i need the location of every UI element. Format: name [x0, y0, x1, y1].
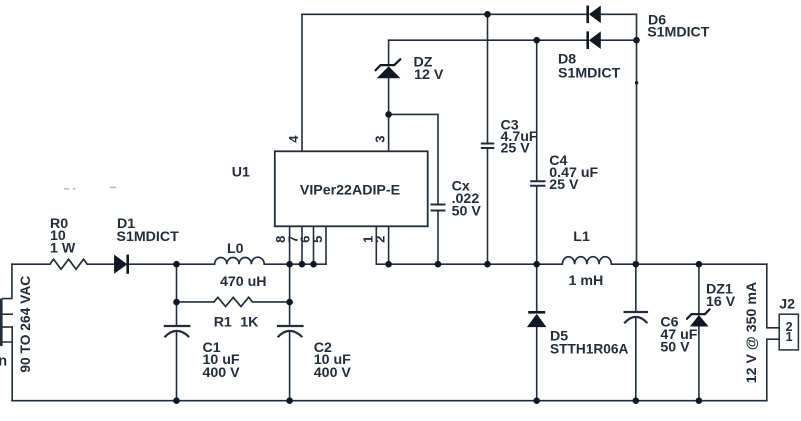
svg-text:90 TO 264 VAC: 90 TO 264 VAC [18, 276, 33, 373]
node rail/C6 [633, 261, 640, 268]
wire DZ1 column [698, 264, 700, 401]
svg-text:VIPer22ADIP-E: VIPer22ADIP-E [300, 183, 400, 199]
svg-text:1K: 1K [240, 314, 259, 330]
svg-text:50 V: 50 V [452, 203, 482, 219]
node rail2/C4 [533, 37, 540, 44]
node rail/C3 [484, 261, 491, 268]
svg-text:R1: R1 [214, 314, 232, 330]
svg-text:400 V: 400 V [203, 365, 241, 381]
node rail/C1 [173, 261, 180, 268]
svg-text:L0: L0 [227, 241, 244, 257]
diode D8 [586, 31, 600, 49]
svg-text:n: n [0, 354, 7, 370]
wire top rail 1 left segment [302, 13, 587, 15]
wire output top corner to J2 pin 2 [767, 264, 779, 328]
svg-text:J2: J2 [779, 297, 795, 313]
svg-text:1 mH: 1 mH [569, 273, 604, 289]
wire right drop from D6/D8 [636, 14, 638, 264]
capacitor C4 [530, 181, 545, 186]
svg-text:S1MDICT: S1MDICT [558, 65, 621, 81]
wire DZ zener bottom lead to node [388, 78, 390, 151]
svg-text:470 uH: 470 uH [220, 274, 267, 290]
node R1/C2 [286, 299, 293, 306]
wire D5 column [536, 264, 538, 401]
node rail/DZ1 [696, 261, 703, 268]
connector J2 body [779, 314, 798, 350]
wire top rail 1 right segment [601, 13, 637, 15]
inductor L0 [215, 257, 265, 264]
svg-text:400 V: 400 V [314, 365, 352, 381]
svg-text:12 V: 12 V [414, 67, 444, 83]
node gnd/C2 [286, 397, 293, 404]
svg-text:STTH1R06A: STTH1R06A [550, 342, 628, 357]
svg-text:S1MDICT: S1MDICT [647, 24, 710, 40]
wire J1 lower drop [3, 327, 13, 401]
wire output bottom corner to J2 pin 1 [767, 339, 779, 401]
node rail/pin8 [286, 261, 293, 268]
wire DZ zener top lead [388, 40, 390, 65]
svg-text:1 W: 1 W [50, 241, 76, 257]
node rail2/right drop [633, 37, 640, 44]
svg-text:4: 4 [286, 135, 301, 143]
node rail/pin7 [299, 261, 306, 268]
node gnd/D5 [533, 397, 540, 404]
node rail/Cx [435, 261, 442, 268]
zener DZ [376, 59, 401, 78]
svg-text:L1: L1 [573, 229, 590, 245]
node rail/C4-D5 [533, 261, 540, 268]
diode D6 [586, 6, 600, 24]
wire pin 1 drop [375, 226, 377, 264]
wire J1 pin stub top [3, 313, 13, 315]
resistor R0 [50, 259, 88, 269]
wire pin 6 drop [313, 226, 315, 264]
node artifact blip on right drop [635, 81, 638, 84]
wire rail 2 left segment [389, 39, 588, 41]
wire main rail A [12, 263, 326, 265]
wire C2 column [289, 264, 291, 401]
node gnd/C6 [633, 397, 640, 404]
capacitor C6 [624, 312, 649, 323]
node rail/pin2 [385, 261, 392, 268]
wire pin 7 drop [301, 226, 303, 264]
wire rail 2 right segment [601, 39, 637, 41]
svg-text:50 V: 50 V [660, 339, 690, 355]
wire pin 5 drop [325, 226, 327, 264]
inductor L1 [562, 257, 611, 265]
svg-text:16 V: 16 V [706, 294, 736, 310]
wire C1 column [176, 264, 178, 401]
zener DZ1 [687, 309, 710, 326]
svg-text:12 V @ 350 mA: 12 V @ 350 mA [744, 282, 760, 383]
svg-text:1: 1 [786, 330, 793, 344]
faint speckle marks [64, 187, 116, 190]
svg-text:U1: U1 [232, 165, 250, 181]
wire node3 branch to Cx [389, 114, 438, 204]
capacitor C3 [481, 144, 495, 149]
wire pin 4 riser [301, 14, 303, 151]
svg-text:2: 2 [373, 236, 388, 243]
wire C6 column [635, 264, 637, 401]
wire main rail B [376, 263, 767, 265]
svg-text:5: 5 [310, 236, 325, 243]
svg-text:25 V: 25 V [549, 177, 579, 193]
diode D1 [114, 255, 129, 274]
op-amp U1 VIPer22ADIP-E body [275, 151, 428, 226]
wire C3 column [487, 14, 489, 264]
capacitor Cx [431, 205, 446, 211]
svg-text:3: 3 [373, 135, 388, 142]
wire J1 pin stub bottom [3, 326, 13, 328]
diode D5 [527, 311, 547, 327]
svg-text:S1MDICT: S1MDICT [117, 229, 180, 245]
node gnd/C1 [173, 397, 180, 404]
node pin3/DZ/Cx [385, 111, 392, 118]
wire J1 riser jog [3, 264, 12, 298]
capacitor C1 [164, 326, 191, 337]
svg-text:25 V: 25 V [501, 141, 531, 157]
wire R1 branch [177, 301, 290, 303]
capacitor C2 [277, 326, 304, 337]
wire pin 2 drop [388, 226, 390, 264]
node R1/C1 [173, 299, 180, 306]
wire pin 8 drop [289, 226, 291, 264]
node rail/pin6 [310, 261, 317, 268]
wire Cx bottom lead [437, 211, 439, 264]
wire C4 column [536, 40, 538, 264]
resistor R1 [214, 297, 253, 306]
node rail1/C3 [484, 11, 491, 18]
node gnd/DZ1 [696, 397, 703, 404]
connector J1 body edge [0, 299, 3, 347]
wire bottom rail [12, 400, 767, 402]
